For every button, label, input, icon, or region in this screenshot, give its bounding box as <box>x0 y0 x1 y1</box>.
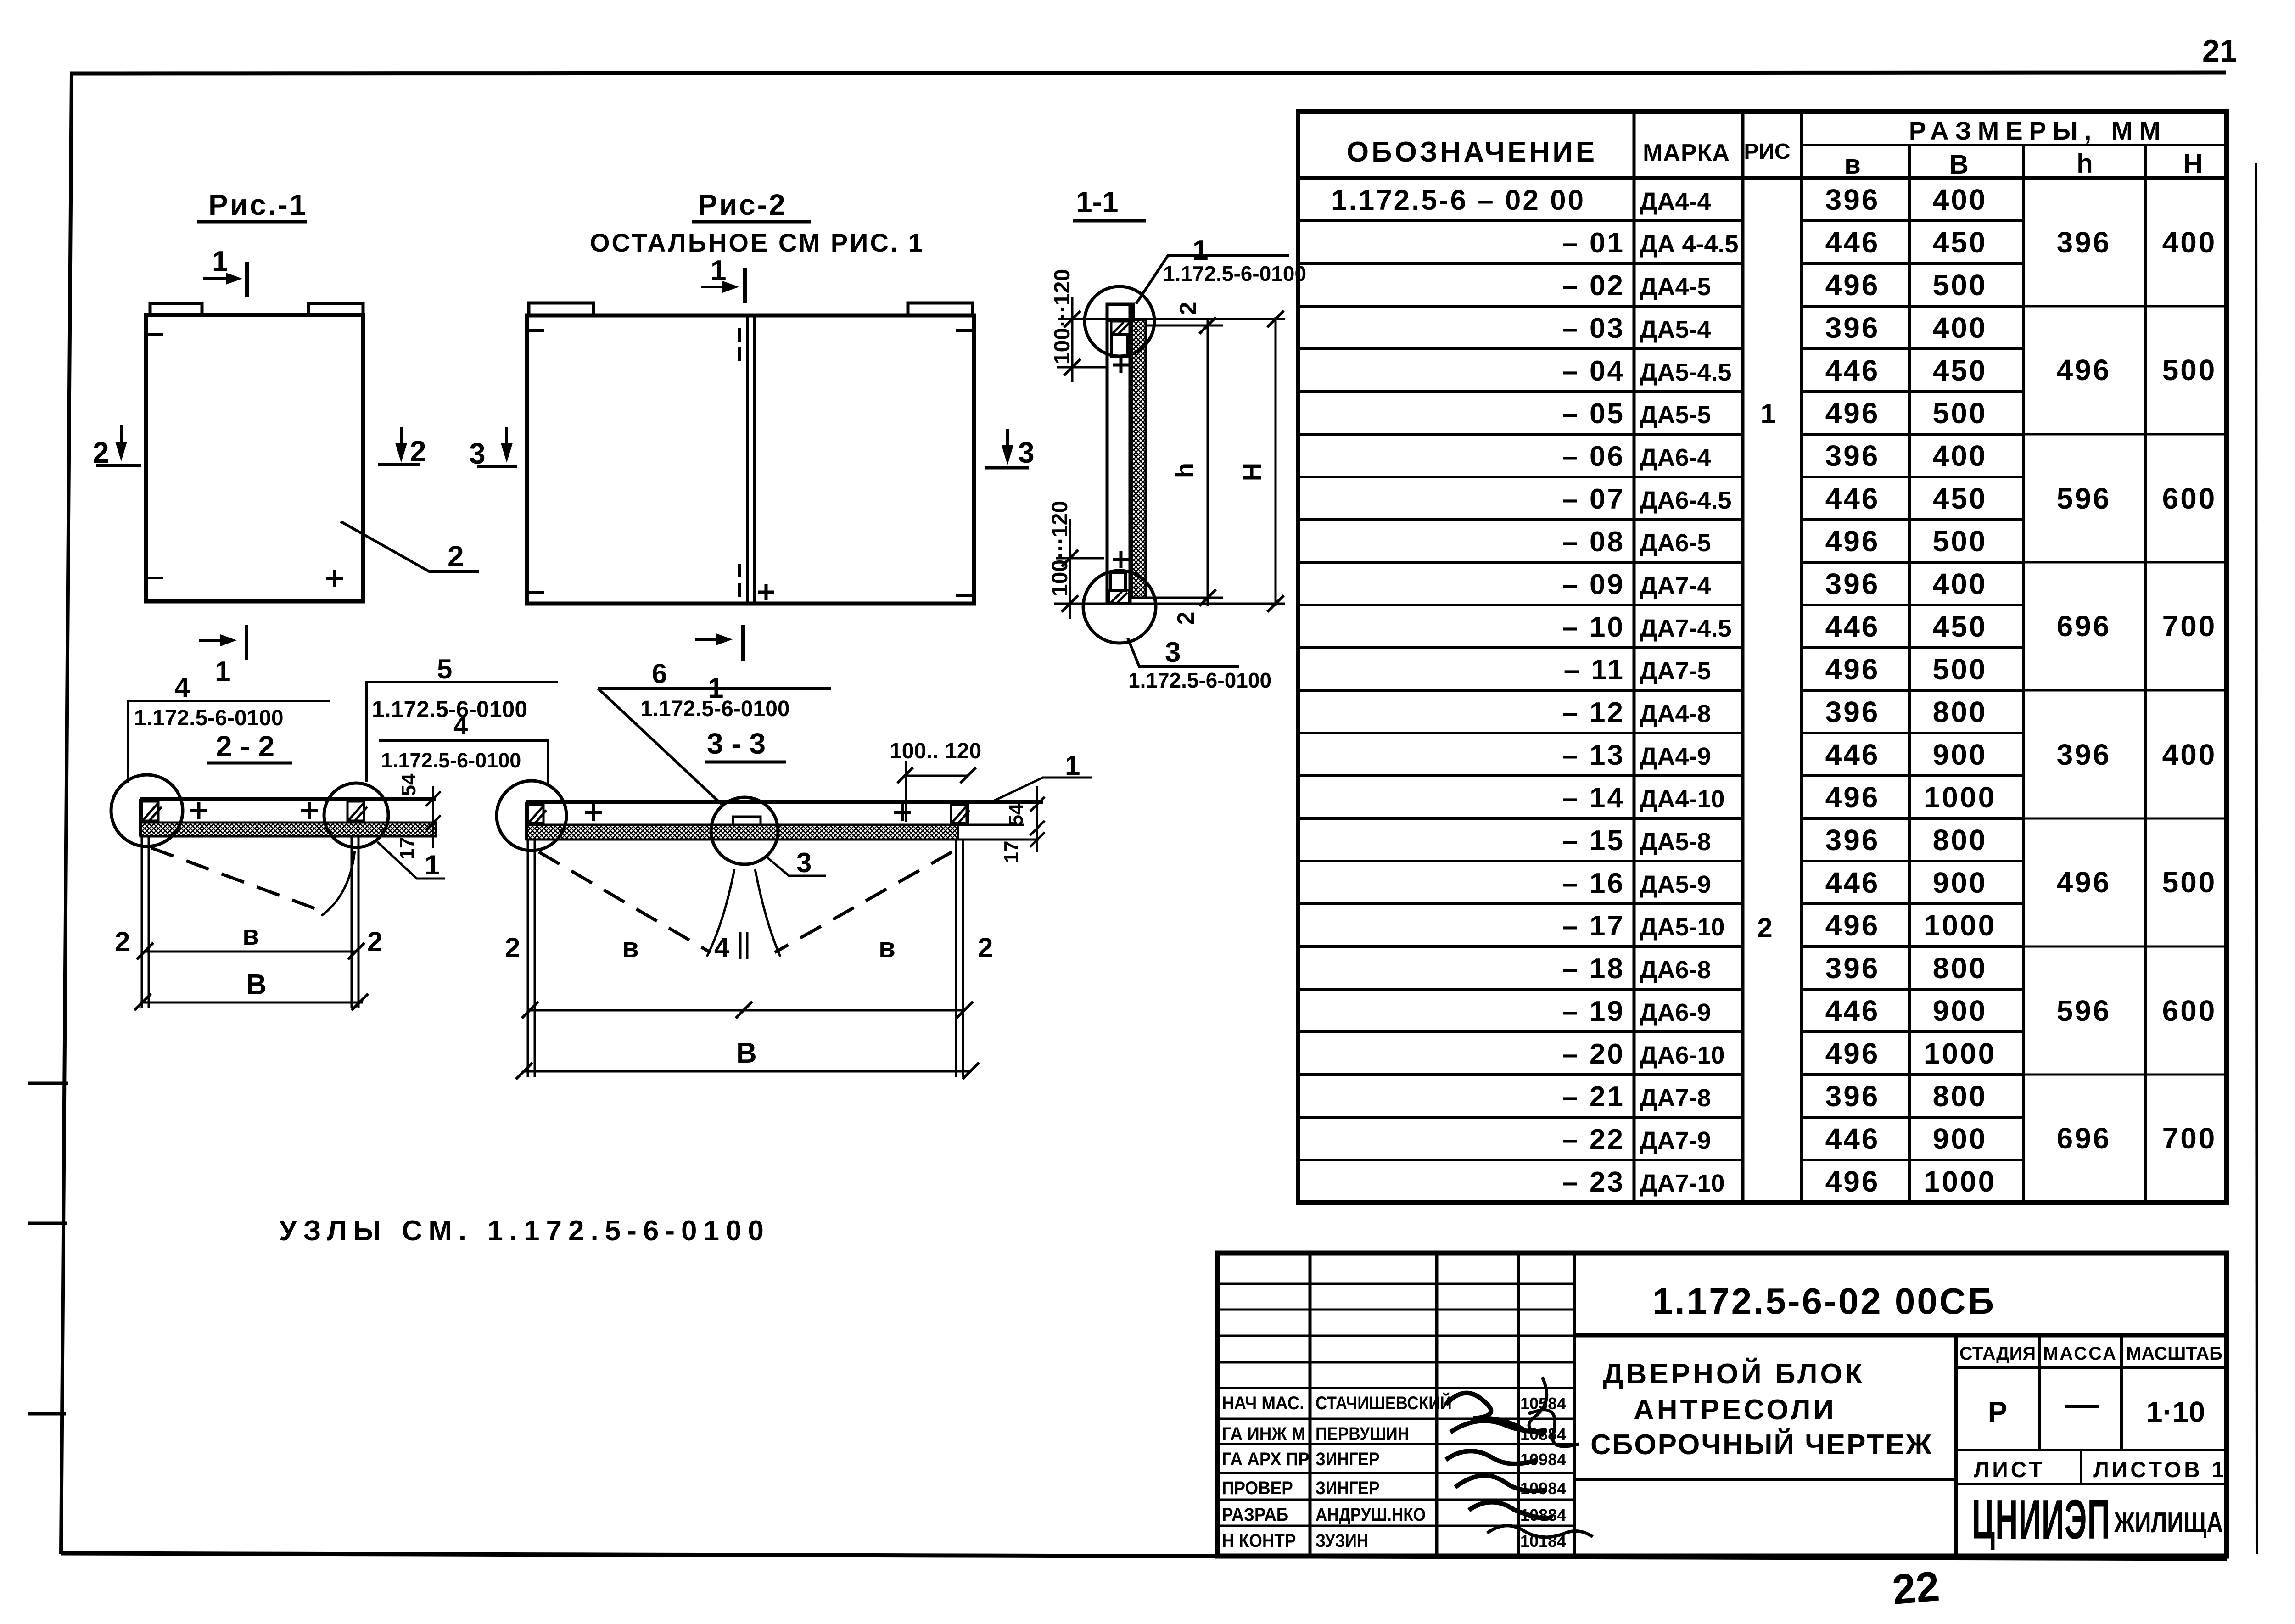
svg-text:396: 396 <box>1825 311 1880 344</box>
svg-text:– 16: – 16 <box>1562 868 1625 899</box>
svg-text:696: 696 <box>2057 610 2111 643</box>
svg-text:800: 800 <box>1933 952 1987 985</box>
svg-text:АНДРУШ.НКО: АНДРУШ.НКО <box>1315 1504 1426 1525</box>
svg-text:2: 2 <box>410 435 426 468</box>
dim 100..120 left extension <box>905 761 907 822</box>
svg-text:– 01: – 01 <box>1562 227 1625 259</box>
top dim oblique ticks <box>1064 311 1080 375</box>
svg-text:РИС: РИС <box>1744 140 1790 164</box>
door swing arc <box>321 851 355 916</box>
svg-text:2: 2 <box>115 926 130 957</box>
svg-text:1.172.5-6-0100: 1.172.5-6-0100 <box>134 706 284 730</box>
leader 1 line <box>1136 255 1289 304</box>
svg-text:СТАДИЯ: СТАДИЯ <box>1959 1344 2036 1364</box>
leader 3 line <box>766 857 826 876</box>
svg-text:ДА5-5: ДА5-5 <box>1640 401 1711 429</box>
svg-text:– 18: – 18 <box>1562 953 1625 985</box>
svg-text:900: 900 <box>1933 866 1987 899</box>
svg-text:РАЗРАБ: РАЗРАБ <box>1222 1505 1288 1525</box>
svg-text:17: 17 <box>396 837 418 860</box>
lintel bar top line <box>140 797 436 801</box>
svg-text:ДА6-9: ДА6-9 <box>1640 999 1711 1026</box>
leader 1 top right line <box>991 778 1092 802</box>
centre detail circle <box>711 797 778 864</box>
svg-text:500: 500 <box>1933 653 1987 686</box>
svg-text:– 13: – 13 <box>1562 739 1625 771</box>
svg-text:ГА ИНЖ М: ГА ИНЖ М <box>1222 1424 1305 1445</box>
svg-text:ДА5-10: ДА5-10 <box>1640 913 1725 941</box>
svg-text:ЗИНГЕР: ЗИНГЕР <box>1315 1478 1380 1498</box>
svg-text:2: 2 <box>978 932 993 963</box>
svg-text:500: 500 <box>1933 269 1987 302</box>
svg-text:в: в <box>879 932 896 963</box>
svg-text:– 20: – 20 <box>1562 1038 1625 1070</box>
svg-text:700: 700 <box>2162 610 2217 643</box>
signature table right boundary <box>1573 1253 1576 1556</box>
svg-text:ДА7-4: ДА7-4 <box>1640 572 1711 599</box>
h/H merged group separator lines <box>2023 306 2227 1075</box>
svg-text:2: 2 <box>1175 302 1202 315</box>
svg-text:СТАЧИШЕВСКИЙ: СТАЧИШЕВСКИЙ <box>1315 1393 1452 1413</box>
centre meeting notch <box>733 817 761 825</box>
plus mark right <box>301 802 318 819</box>
svg-text:396: 396 <box>1825 695 1880 728</box>
lintel bar left cap <box>525 802 528 840</box>
svg-text:МАСШТАБ: МАСШТАБ <box>2126 1344 2222 1364</box>
logo ЖИЛИЩА <box>2114 1506 2223 1539</box>
svg-text:ПРОВЕР: ПРОВЕР <box>1222 1478 1293 1499</box>
svg-text:3: 3 <box>1018 436 1035 469</box>
svg-text:Рис-2: Рис-2 <box>698 188 787 221</box>
svg-text:396: 396 <box>2057 738 2111 771</box>
СТАДИЯ section divider <box>1954 1335 1958 1556</box>
svg-text:450: 450 <box>1933 354 1987 387</box>
node ref diagonal leader <box>598 689 722 804</box>
right jamb outer line <box>358 836 360 1008</box>
svg-text:446: 446 <box>1825 994 1880 1027</box>
svg-text:700: 700 <box>2162 1122 2217 1155</box>
right end hatch block <box>951 805 967 823</box>
top dim lower extension line <box>1057 366 1107 369</box>
svg-text:ЛИСТОВ 1: ЛИСТОВ 1 <box>2093 1458 2227 1482</box>
svg-text:H: H <box>1237 463 1266 481</box>
column line h|Н <box>2144 145 2147 1203</box>
bottom dim upper extension line <box>1056 557 1104 560</box>
svg-text:ДА4-4: ДА4-4 <box>1640 188 1711 215</box>
svg-text:5: 5 <box>437 654 452 684</box>
svg-text:ДА6-4: ДА6-4 <box>1640 444 1711 471</box>
top extension line H <box>1058 318 1285 320</box>
page left border line <box>61 73 72 1554</box>
svg-text:РАЗМЕРЫ, ММ: РАЗМЕРЫ, ММ <box>1909 116 2167 145</box>
door leaf outline Ris1 <box>146 315 363 601</box>
svg-text:496: 496 <box>1825 1037 1880 1070</box>
svg-text:– 14: – 14 <box>1562 782 1625 814</box>
signature row Н КОНТР <box>1222 1531 1296 1551</box>
signature row ПРОВЕР <box>1222 1478 1293 1499</box>
svg-text:ЗИНГЕР: ЗИНГЕР <box>1315 1449 1380 1469</box>
left marker 3: underline <box>477 465 517 468</box>
svg-text:496: 496 <box>1825 397 1880 430</box>
title underline <box>1073 219 1146 223</box>
svg-text:ОБОЗНАЧЕНИЕ: ОБОЗНАЧЕНИЕ <box>1347 136 1597 168</box>
svg-text:100.. 120: 100.. 120 <box>890 739 981 763</box>
svg-text:– 10: – 10 <box>1562 611 1625 643</box>
svg-text:4: 4 <box>453 711 468 740</box>
bottom detail circle <box>1083 571 1156 643</box>
crosshatch strip <box>526 825 958 840</box>
svg-text:– 17: – 17 <box>1562 910 1625 942</box>
svg-text:ДА7-9: ДА7-9 <box>1640 1127 1711 1154</box>
left edge tick lower <box>525 591 544 594</box>
node ref leader drop <box>127 701 129 783</box>
leader line to 2 <box>341 521 479 571</box>
plus mark right <box>894 804 911 821</box>
right marker 2: underline <box>378 463 420 466</box>
svg-text:396: 396 <box>1825 1080 1880 1113</box>
left marker 2: down arrow <box>120 425 123 452</box>
svg-text:496: 496 <box>1825 1165 1880 1198</box>
door swing dashed line <box>151 848 326 913</box>
plus mark left <box>585 804 602 821</box>
svg-text:СБОРОЧНЫЙ ЧЕРТЕЖ: СБОРОЧНЫЙ ЧЕРТЕЖ <box>1590 1428 1933 1461</box>
svg-text:396: 396 <box>1825 439 1880 472</box>
door leaf (vertical) outline <box>1107 304 1130 604</box>
svg-text:600: 600 <box>2162 482 2217 515</box>
svg-text:450: 450 <box>1933 482 1987 515</box>
title block outer box <box>1218 1253 2227 1556</box>
svg-text:ЖИЛИЩА: ЖИЛИЩА <box>2114 1506 2223 1539</box>
svg-text:– 02: – 02 <box>1562 270 1625 302</box>
svg-text:2: 2 <box>448 540 464 573</box>
svg-text:100⋯120: 100⋯120 <box>1050 269 1075 364</box>
left jamb inner line <box>534 840 536 1077</box>
panel crosshatch strip <box>1132 320 1146 598</box>
svg-text:1.172.5-6-0100: 1.172.5-6-0100 <box>381 749 521 772</box>
h dim oblique ticks <box>1199 317 1216 606</box>
right marker 3: down arrow <box>1006 429 1009 456</box>
svg-text:МАРКА: МАРКА <box>1643 140 1730 166</box>
svg-text:1000: 1000 <box>1924 781 1996 814</box>
ЛИСТ|ЛИСТОВ divider <box>2080 1450 2082 1484</box>
svg-text:1.172.5-6-0100: 1.172.5-6-0100 <box>372 696 527 722</box>
fold tick 3 <box>28 1412 66 1416</box>
svg-text:3: 3 <box>796 847 812 878</box>
title underline <box>692 220 811 224</box>
svg-text:2: 2 <box>367 926 382 957</box>
page right border line <box>2256 163 2257 1554</box>
column line в|В <box>1908 145 1911 1203</box>
svg-text:НАЧ МАС.: НАЧ МАС. <box>1222 1393 1304 1414</box>
bottom hinge white square <box>1110 572 1125 590</box>
svg-text:ДА7-5: ДА7-5 <box>1640 657 1711 685</box>
svg-text:4: 4 <box>174 672 190 703</box>
svg-text:1-1: 1-1 <box>1076 185 1119 218</box>
section marker 1 (top): cut tick <box>743 268 747 303</box>
signature row ГА ИНЖ М <box>1222 1424 1305 1445</box>
svg-text:2: 2 <box>1757 913 1772 943</box>
svg-text:800: 800 <box>1933 823 1987 857</box>
svg-text:В: В <box>1949 150 1969 179</box>
signature table column line 3 <box>1517 1253 1520 1556</box>
svg-text:– 19: – 19 <box>1562 996 1625 1027</box>
node 4b underline <box>379 739 549 742</box>
svg-text:– 22: – 22 <box>1562 1124 1625 1155</box>
bar bottom line <box>526 824 1024 826</box>
svg-text:396: 396 <box>1825 567 1880 600</box>
svg-text:в: в <box>242 920 259 951</box>
svg-text:500: 500 <box>2162 353 2217 386</box>
node 4b leader drop <box>547 741 549 786</box>
dim v line full <box>529 1009 965 1012</box>
svg-text:1·10: 1·10 <box>2146 1395 2205 1428</box>
svg-text:400: 400 <box>1933 567 1987 600</box>
svg-text:ПЕРВУШИН: ПЕРВУШИН <box>1315 1423 1409 1444</box>
title cell bottom line <box>1574 1478 1956 1481</box>
right jamb inner line <box>351 836 353 1008</box>
ЛИСТ row bottom line <box>1956 1483 2227 1485</box>
svg-text:ГА АРХ ПР: ГА АРХ ПР <box>1222 1449 1310 1470</box>
svg-text:ДА7-4.5: ДА7-4.5 <box>1640 615 1732 642</box>
svg-text:1.172.5-6-0100: 1.172.5-6-0100 <box>640 697 790 721</box>
right jamb inner line <box>955 840 957 1077</box>
left jamb outer line <box>527 840 529 1077</box>
СТАДИЯ|МАССА divider <box>2038 1335 2041 1450</box>
node 5 underline <box>365 681 558 683</box>
strip bottom line <box>526 839 1039 841</box>
svg-text:496: 496 <box>1825 525 1880 558</box>
dim 54 line <box>432 786 434 848</box>
svg-text:– 21: – 21 <box>1562 1081 1625 1113</box>
bottom marker 1: arrow line <box>695 638 725 641</box>
dim v ticks <box>137 943 364 959</box>
svg-text:1000: 1000 <box>1924 909 1996 942</box>
column line РИС|в <box>1800 112 1803 1203</box>
svg-text:496: 496 <box>2057 866 2111 899</box>
column line ОБОЗНАЧЕНИЕ|МАРКА <box>1633 112 1636 1203</box>
left jamb outer line <box>141 836 143 1008</box>
svg-text:10984: 10984 <box>1520 1450 1566 1469</box>
svg-text:УЗЛЫ СМ. 1.172.5-6-0100: УЗЛЫ СМ. 1.172.5-6-0100 <box>279 1215 770 1247</box>
leader 1 line <box>377 842 445 879</box>
svg-text:396: 396 <box>1825 183 1880 216</box>
right detail circle <box>324 783 388 847</box>
left edge tick upper <box>525 329 544 332</box>
svg-text:446: 446 <box>1825 1122 1880 1155</box>
svg-text:1000: 1000 <box>1924 1037 1996 1070</box>
svg-text:800: 800 <box>1933 695 1987 728</box>
central double meeting line <box>746 316 749 603</box>
right edge tick lower <box>956 594 974 597</box>
right jamb outer line <box>962 840 964 1077</box>
signature table row lines <box>1218 1284 1574 1526</box>
svg-text:ДВЕРНОЙ БЛОК: ДВЕРНОЙ БЛОК <box>1603 1358 1865 1390</box>
left edge tick lower <box>144 577 163 579</box>
svg-text:ДА6-10: ДА6-10 <box>1640 1042 1725 1069</box>
bottom extension line h <box>1130 597 1223 599</box>
svg-text:ДА6-4.5: ДА6-4.5 <box>1640 487 1732 514</box>
svg-text:– 05: – 05 <box>1562 398 1625 430</box>
signature row ГА АРХ ПР <box>1222 1449 1310 1470</box>
left jamb inner line <box>148 836 150 1008</box>
svg-text:h: h <box>1170 463 1199 478</box>
svg-text:496: 496 <box>1825 269 1880 302</box>
top hinge white square <box>1111 334 1127 357</box>
svg-text:900: 900 <box>1933 738 1987 771</box>
svg-text:1.172.5-6-0100: 1.172.5-6-0100 <box>1163 262 1306 286</box>
table outer border <box>1298 112 2227 1203</box>
svg-text:ЦНИИЭП: ЦНИИЭП <box>1972 1488 2110 1551</box>
svg-text:396: 396 <box>1825 952 1880 985</box>
svg-text:400: 400 <box>1933 183 1987 216</box>
title underline <box>207 762 292 765</box>
table header separator (under column titles) <box>1298 176 2227 180</box>
svg-text:450: 450 <box>1933 610 1987 643</box>
node ref underline <box>598 687 831 690</box>
svg-text:496: 496 <box>1825 781 1880 814</box>
svg-text:400: 400 <box>1933 439 1987 472</box>
fold tick 1 <box>28 1082 68 1085</box>
svg-text:– 08: – 08 <box>1562 526 1625 558</box>
svg-text:596: 596 <box>2057 482 2111 515</box>
svg-text:2: 2 <box>1173 612 1199 625</box>
signature row НАЧ МАС. <box>1222 1393 1304 1414</box>
dim V ticks <box>516 1063 979 1079</box>
svg-text:446: 446 <box>1825 610 1880 643</box>
right swing arc <box>755 869 780 957</box>
РАЗМЕРЫ subheader line <box>1802 144 2227 146</box>
plus mark left <box>190 802 207 819</box>
svg-text:54: 54 <box>397 773 420 796</box>
svg-text:– 09: – 09 <box>1562 569 1625 600</box>
svg-text:500: 500 <box>1933 525 1987 558</box>
svg-text:800: 800 <box>1933 1080 1987 1113</box>
node 5 leader drop <box>365 682 368 782</box>
meeting stile dashes top <box>738 328 741 361</box>
node ref underline <box>127 700 330 702</box>
svg-text:596: 596 <box>2057 994 2111 1027</box>
svg-text:ЗУЗИН: ЗУЗИН <box>1315 1530 1368 1551</box>
svg-text:900: 900 <box>1933 1122 1987 1155</box>
svg-text:в: в <box>622 932 639 963</box>
svg-text:1.172.5-6-02 00СБ: 1.172.5-6-02 00СБ <box>1652 1281 1996 1322</box>
top frame block <box>1107 304 1133 320</box>
svg-text:400: 400 <box>2162 738 2217 771</box>
page top border line <box>70 73 2226 73</box>
svg-text:900: 900 <box>1933 994 1987 1027</box>
plus mark top hinge <box>1113 357 1129 373</box>
left end hatch block <box>528 805 543 823</box>
right top tab <box>308 303 363 315</box>
svg-text:ДА5-8: ДА5-8 <box>1640 828 1711 856</box>
svg-text:ОСТАЛЬНОЕ СМ РИС. 1: ОСТАЛЬНОЕ СМ РИС. 1 <box>590 228 924 257</box>
lintel bar left cap <box>139 799 142 836</box>
svg-text:1: 1 <box>215 656 230 688</box>
designation cell bottom line <box>1574 1333 2227 1338</box>
lintel bar top line <box>526 800 1043 804</box>
dim 54 line right <box>1036 786 1038 852</box>
svg-text:Н: Н <box>2183 149 2203 179</box>
fold tick 2 <box>28 1222 67 1225</box>
svg-text:ДА4-8: ДА4-8 <box>1640 700 1711 728</box>
МАССА|МАСШТАБ divider <box>2120 1335 2123 1450</box>
svg-text:– 03: – 03 <box>1562 313 1625 344</box>
svg-text:ДА4-9: ДА4-9 <box>1640 743 1711 770</box>
svg-text:– 11: – 11 <box>1564 654 1625 686</box>
svg-text:2 - 2: 2 - 2 <box>216 730 274 763</box>
svg-text:ДА5-9: ДА5-9 <box>1640 871 1711 898</box>
plus mark bottom hinge <box>1113 551 1129 568</box>
svg-text:ДА6-8: ДА6-8 <box>1640 956 1711 984</box>
right marker 3: underline <box>985 466 1029 470</box>
svg-text:3: 3 <box>1165 637 1181 668</box>
bottom marker 1: arrow line <box>199 639 229 642</box>
column line МАРКА|РИС <box>1741 112 1745 1203</box>
svg-text:696: 696 <box>2057 1122 2111 1155</box>
double door outline Ris2 <box>527 315 974 604</box>
svg-text:1: 1 <box>1065 750 1080 781</box>
signature scribbles <box>1446 1393 1551 1518</box>
left top tab <box>529 303 593 315</box>
bar bottom line <box>140 822 436 824</box>
svg-text:1.172.5-6 – 02 00: 1.172.5-6 – 02 00 <box>1331 185 1585 216</box>
svg-text:В: В <box>246 969 267 1001</box>
svg-text:ДА5-4.5: ДА5-4.5 <box>1640 358 1732 386</box>
svg-text:396: 396 <box>1825 823 1880 857</box>
section marker 1 (top): arrow line <box>701 286 732 288</box>
svg-text:В: В <box>736 1037 757 1069</box>
svg-text:ЛИСТ: ЛИСТ <box>1974 1458 2045 1482</box>
bottom hinge hatch block <box>1109 590 1129 604</box>
svg-text:21: 21 <box>2202 34 2237 68</box>
dim 100..120 ticks <box>897 767 976 783</box>
H dimension line <box>1275 317 1277 606</box>
column line В|h <box>2022 145 2025 1203</box>
top dim vertical line <box>1071 297 1074 382</box>
svg-text:600: 600 <box>2162 994 2217 1027</box>
left swing arc <box>707 869 734 957</box>
title underline <box>197 220 307 224</box>
meeting stile dashes bottom <box>738 564 741 597</box>
page bottom border line <box>61 1553 2227 1559</box>
left detail circle <box>111 775 183 846</box>
right top tab <box>908 303 973 315</box>
plus mark bottom right <box>326 570 343 587</box>
svg-text:1: 1 <box>212 246 228 277</box>
bottom leader 3 line <box>1128 638 1239 666</box>
row separator lines (left section and v/V columns) <box>1298 221 2023 1160</box>
svg-text:– 04: – 04 <box>1562 355 1625 387</box>
svg-text:– 15: – 15 <box>1562 825 1625 857</box>
svg-text:22: 22 <box>1891 1563 1942 1614</box>
right swing dashed line <box>775 852 952 952</box>
signature table column line 2 <box>1435 1253 1439 1556</box>
mass dash <box>2065 1405 2099 1408</box>
svg-text:ДА4-5: ДА4-5 <box>1640 273 1711 301</box>
svg-text:446: 446 <box>1825 226 1880 259</box>
section marker 1 (top): arrow line <box>203 277 235 280</box>
dim 100..120 line <box>904 775 968 777</box>
svg-text:Р: Р <box>1988 1395 2008 1428</box>
svg-text:396: 396 <box>2057 226 2111 259</box>
left detail circle 3-3 <box>497 781 566 851</box>
bottom marker 1: cut tick <box>245 625 248 660</box>
H dim oblique ticks <box>1267 311 1284 612</box>
bottom extension line H <box>1054 603 1285 605</box>
svg-text:1000: 1000 <box>1924 1165 1996 1198</box>
dim V line <box>523 1070 971 1073</box>
svg-text:500: 500 <box>2162 866 2217 899</box>
